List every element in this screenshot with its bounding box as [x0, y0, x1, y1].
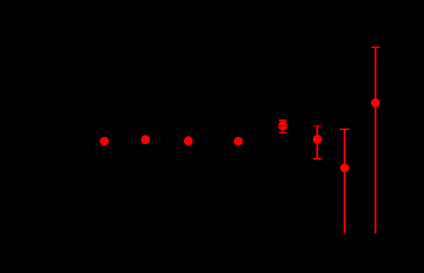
data point 3 — [187, 136, 189, 141]
data point 5 with error bar — [278, 120, 287, 132]
data point 8 with error bar (lower clipped) — [371, 47, 380, 233]
data point 6 with error bar — [313, 126, 322, 159]
data point 7 with error bar (lower clipped) — [340, 129, 349, 233]
data point 1 — [100, 137, 109, 146]
data point 4 — [234, 137, 243, 146]
data point 2 — [141, 135, 150, 144]
